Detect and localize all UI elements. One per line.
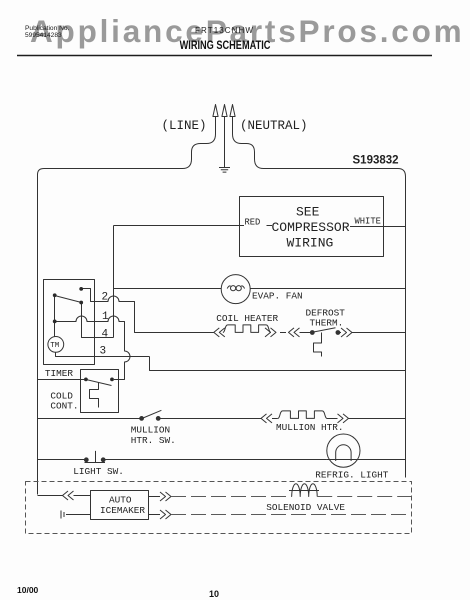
svg-text:S193832: S193832 [353, 154, 399, 166]
svg-text:RED: RED [245, 217, 261, 227]
svg-text:TM: TM [50, 342, 60, 350]
svg-text:ICEMAKER: ICEMAKER [100, 505, 145, 516]
svg-text:3: 3 [100, 346, 107, 358]
svg-text:THERM.: THERM. [310, 317, 344, 328]
svg-text:4: 4 [102, 328, 109, 340]
svg-text:EVAP. FAN: EVAP. FAN [252, 291, 303, 302]
svg-text:COIL HEATER: COIL HEATER [216, 313, 278, 324]
svg-text:WHITE: WHITE [355, 217, 381, 227]
svg-text:HTR. SW.: HTR. SW. [131, 435, 176, 446]
svg-text:2: 2 [102, 292, 109, 304]
svg-text:1: 1 [102, 311, 109, 323]
svg-text:MULLION HTR.: MULLION HTR. [276, 422, 344, 433]
svg-text:SOLENOID VALVE: SOLENOID VALVE [266, 502, 345, 513]
svg-text:AUTO: AUTO [109, 495, 132, 506]
svg-text:LIGHT SW.: LIGHT SW. [73, 466, 124, 477]
svg-text:TIMER: TIMER [45, 368, 74, 379]
svg-text:CONT.: CONT. [50, 400, 78, 411]
svg-text:SEE: SEE [296, 205, 320, 220]
svg-text:(NEUTRAL): (NEUTRAL) [240, 119, 308, 133]
svg-text:COMPRESSOR: COMPRESSOR [272, 220, 350, 235]
svg-text:REFRIG. LIGHT: REFRIG. LIGHT [315, 470, 389, 481]
svg-text:(LINE): (LINE) [162, 119, 207, 133]
svg-text:WIRING: WIRING [287, 236, 334, 251]
